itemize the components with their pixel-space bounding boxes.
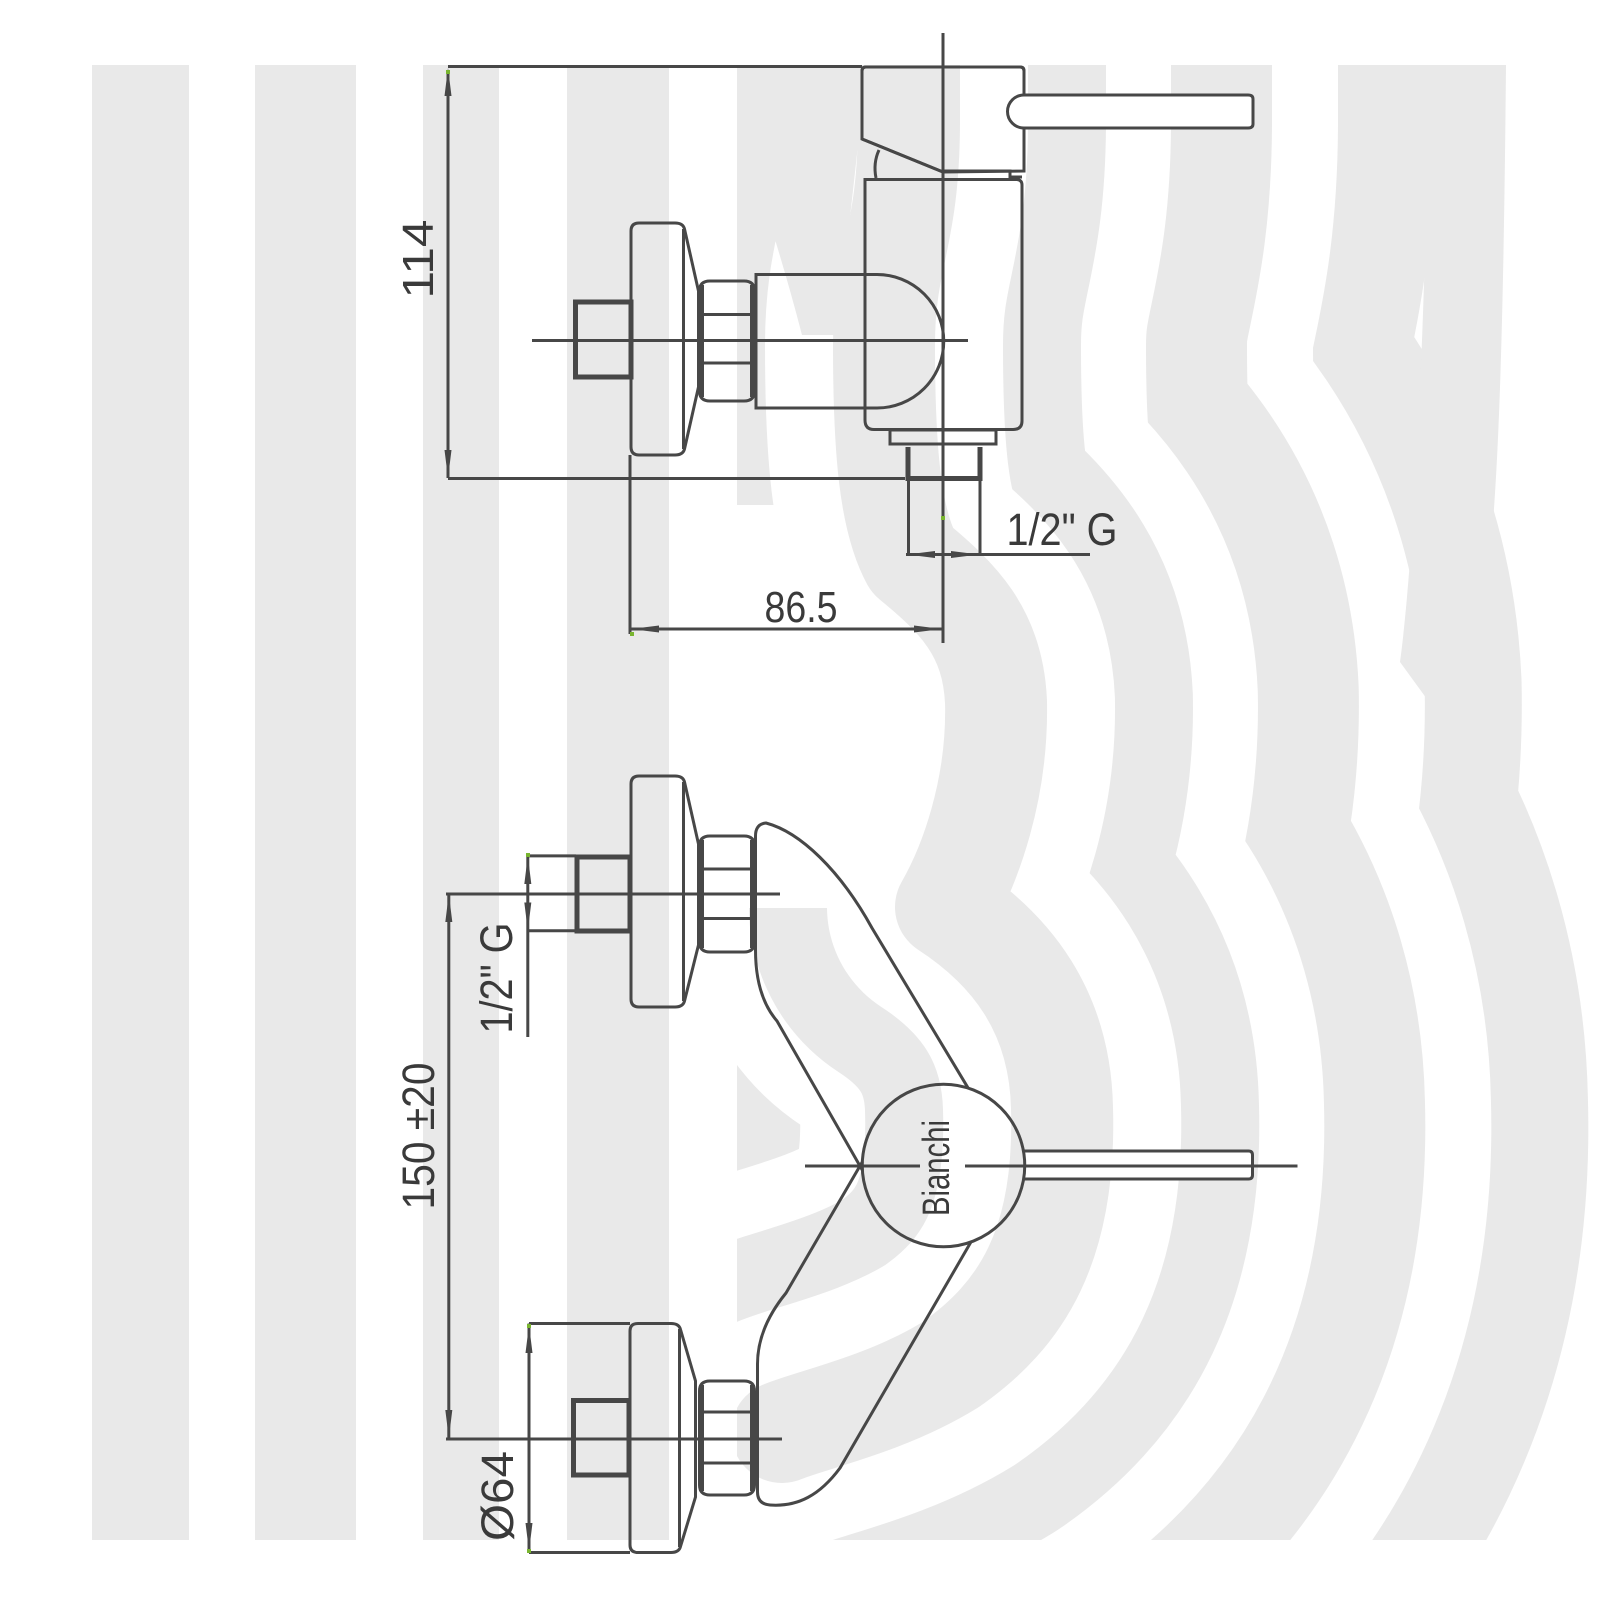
handle (side): [1008, 95, 1254, 128]
handle (front): [1023, 1151, 1252, 1179]
upper centerline: [446, 893, 780, 896]
counter whitener: [737, 505, 903, 908]
green snap dots: [446, 70, 945, 1553]
svg-text:1/2" G: 1/2" G: [471, 923, 522, 1034]
lower centerline: [446, 1438, 782, 1441]
hex nut (side): [700, 281, 755, 401]
main centerline through circle: [805, 1165, 920, 1168]
dimension 86.5: [630, 455, 943, 634]
upper hex nut: [700, 836, 755, 952]
body mid section: [865, 180, 1022, 430]
lower hex nut: [700, 1381, 755, 1495]
svg-text:86.5: 86.5: [765, 583, 838, 632]
dimension 114: [448, 67, 905, 479]
threaded nipple: [906, 447, 911, 478]
escutcheon crease: [682, 229, 685, 449]
lower inlet square: [574, 1401, 630, 1476]
top bar band patch: [720, 65, 858, 335]
cap outline redraw: [862, 67, 1024, 139]
escutcheon plate (side): [631, 223, 699, 455]
svg-text:150 ±20: 150 ±20: [393, 1063, 444, 1210]
svg-text:114: 114: [394, 220, 443, 299]
svg-text:1/2" G: 1/2" G: [1007, 504, 1118, 555]
outlet flange: [890, 430, 996, 444]
upper inlet square: [577, 857, 630, 931]
mixer circle: [862, 1084, 1025, 1247]
dimension diameter 64: [529, 1324, 630, 1553]
horizontal centerline: [532, 339, 968, 342]
4th outer ring band top right: [1400, 65, 1506, 706]
top cap: [862, 67, 1024, 172]
check valve stadium: [756, 275, 944, 409]
diagonal cut: [862, 139, 943, 172]
dimension 150 +-20: [447, 893, 450, 1439]
inlet square (wall side): [576, 302, 632, 377]
vertical centerline: [942, 33, 945, 643]
lower escutcheon plate: [630, 1324, 696, 1553]
ball joint arc: [875, 150, 879, 178]
dimension 1/2" G (top view): [906, 553, 1090, 556]
upper escutcheon plate: [631, 776, 699, 1007]
dimension 1/2" G (bottom view): [528, 855, 576, 1038]
svg-text:Bianchi: Bianchi: [916, 1120, 958, 1216]
body diagonal shape: [756, 823, 969, 1170]
svg-text:Ø64: Ø64: [472, 1451, 523, 1541]
